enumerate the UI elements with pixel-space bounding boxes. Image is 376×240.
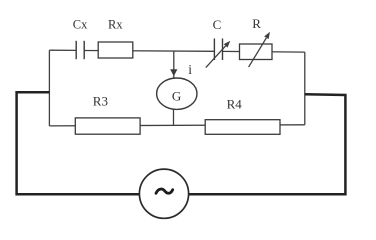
svg-text:R3: R3	[93, 94, 108, 109]
svg-text:Cx: Cx	[73, 18, 88, 32]
svg-text:C: C	[213, 17, 222, 32]
svg-text:G: G	[172, 88, 181, 103]
svg-text:R: R	[252, 16, 261, 31]
svg-text:i: i	[188, 62, 192, 77]
svg-text:Rx: Rx	[108, 17, 123, 31]
svg-text:R4: R4	[227, 96, 243, 111]
